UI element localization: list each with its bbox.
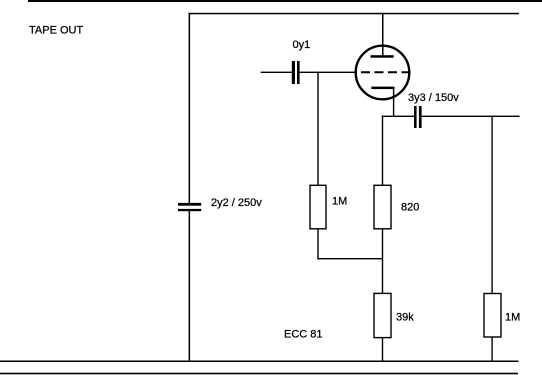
wire R3 bottom to ground rail bbox=[382, 338, 383, 362]
wire ground rail bottom bbox=[0, 361, 519, 363]
wire output branch down to R4 bbox=[491, 116, 492, 294]
wire anode to supply rail bbox=[382, 13, 384, 56]
resistor R4 1M bbox=[484, 294, 501, 338]
wire R2 bottom to R3 top bbox=[382, 229, 383, 294]
wire output node horizontal (cathode to C2) bbox=[382, 116, 415, 117]
wire input stub to C1 bbox=[261, 72, 292, 73]
svg-text:1M: 1M bbox=[332, 196, 347, 208]
wire R4 bottom to ground rail bbox=[491, 337, 492, 361]
svg-text:ECC 81: ECC 81 bbox=[284, 329, 323, 341]
wire R1 bottom down to junction rail bbox=[317, 229, 318, 259]
svg-text:0y1: 0y1 bbox=[293, 39, 311, 51]
resistor R1 1M grid leak bbox=[310, 185, 326, 229]
capacitor C3 2y2/250v bbox=[178, 203, 201, 211]
wire output node horizontal (C2 to right) bbox=[422, 116, 520, 117]
wire junction horizontal R1 to R2/R3 node bbox=[317, 258, 383, 259]
wire cathode down to output node bbox=[393, 88, 394, 116]
wire cathode branch down to R2 bbox=[382, 116, 383, 186]
svg-text:1M: 1M bbox=[505, 312, 520, 324]
resistor R3 39k bbox=[374, 293, 391, 337]
wire top supply rail bbox=[189, 13, 520, 15]
triode U1 cathode bar bbox=[371, 87, 394, 90]
capacitor C2 3y3/150v bbox=[414, 106, 422, 128]
wire left vertical (tape-out branch lower) bbox=[189, 211, 191, 361]
triode U1 grid dashed electrode bbox=[361, 71, 410, 73]
wire left vertical (tape-out branch upper) bbox=[189, 13, 191, 203]
svg-text:2y2 / 250v: 2y2 / 250v bbox=[211, 197, 262, 209]
wire grid-leak branch down to R1 bbox=[317, 72, 318, 186]
svg-text:3y3 / 150v: 3y3 / 150v bbox=[408, 92, 459, 104]
svg-text:820: 820 bbox=[401, 202, 419, 214]
wire grid input from C1 to tube bbox=[300, 72, 356, 73]
triode U1 anode plate bar bbox=[371, 55, 394, 58]
capacitor C1 0y1 bbox=[292, 61, 300, 84]
svg-text:39k: 39k bbox=[396, 312, 414, 324]
svg-text:TAPE OUT: TAPE OUT bbox=[29, 25, 83, 37]
triode U1 envelope bbox=[356, 46, 410, 100]
resistor R2 820 bbox=[374, 185, 391, 229]
